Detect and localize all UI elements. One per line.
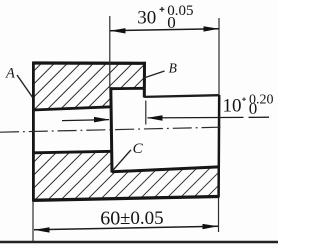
dimension 60: extension lines [32, 201, 34, 242]
extension line for 10 (from shoulder) [145, 101, 147, 125]
svg-text:30: 30 [137, 8, 156, 29]
svg-text:0: 0 [167, 13, 176, 32]
svg-text:B: B [169, 60, 177, 75]
upper bore line (left) [33, 107, 111, 110]
svg-text:0: 0 [249, 99, 257, 118]
internal step face (vertical) [111, 87, 112, 172]
label B leader [144, 71, 165, 78]
dimension 10 left arrow [62, 117, 110, 123]
svg-text:A: A [5, 66, 15, 82]
top edge of large section [33, 61, 146, 64]
dimension 30: extension lines [109, 16, 111, 88]
dimension 10 right arrow and line [147, 115, 269, 121]
page frame line at bottom [0, 241, 278, 243]
label C leader [113, 150, 132, 171]
svg-text:C: C [133, 141, 144, 157]
svg-text:60: 60 [100, 207, 120, 229]
shoulder face B (vertical) [143, 62, 146, 98]
label A leader [17, 75, 33, 98]
svg-text:±0.05: ±0.05 [120, 208, 164, 229]
centerline (dash-dot) [0, 127, 221, 132]
top edge of small section [144, 95, 219, 97]
svg-text:10: 10 [223, 95, 242, 116]
counterbore line (notch top) [110, 87, 145, 90]
bottom edge [33, 197, 219, 201]
hatch region upper block [34, 64, 144, 110]
lower bore line (left) [33, 151, 113, 153]
left end face A [32, 62, 35, 202]
dimension 60: dimension line with arrows [34, 224, 218, 233]
dimension 30: dimension line with arrows [110, 26, 219, 33]
right end face [217, 95, 220, 198]
hatch region lower block [34, 152, 219, 201]
lower step line C (right) [112, 167, 219, 172]
